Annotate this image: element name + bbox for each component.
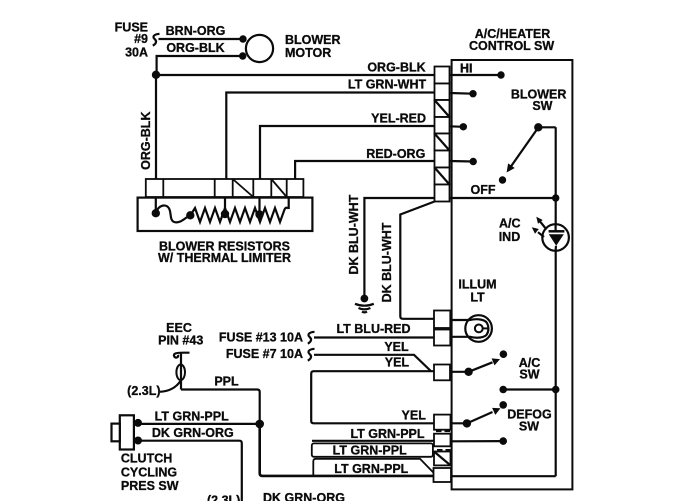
- wire BRN-ORG fuse9 to motor: [159, 38, 244, 40]
- svg-text:FUSE #7 10A: FUSE #7 10A: [226, 347, 303, 361]
- control switch box U1 outline: [452, 60, 573, 489]
- ground G1: [361, 295, 369, 303]
- common bus vertical wire: [555, 127, 557, 476]
- svg-text:SW: SW: [519, 367, 539, 381]
- EEC pin 43 connector symbol: [174, 353, 190, 358]
- wire RED-ORG: [295, 161, 434, 180]
- wire down to defog feed: [260, 424, 434, 476]
- blower switch S1 arm: [510, 128, 539, 169]
- wire LT GRN-WHT: [226, 93, 434, 180]
- svg-text:CYCLING: CYCLING: [121, 466, 177, 480]
- svg-text:PRES SW: PRES SW: [121, 479, 179, 493]
- resistor element zigzag: [190, 208, 288, 222]
- lower connector cells: [434, 415, 452, 482]
- svg-text:DK BLU-WHT: DK BLU-WHT: [347, 194, 361, 274]
- clutch cycling press switch S4: [120, 415, 134, 449]
- illum lamp L1: [465, 315, 492, 342]
- svg-text:YEL: YEL: [385, 355, 410, 369]
- option box 2 LT GRN-PPL: [313, 459, 433, 476]
- svg-text:LT GRN-WHT: LT GRN-WHT: [348, 77, 427, 91]
- connector dashes: [436, 431, 451, 450]
- junction node: [152, 71, 160, 79]
- A/C switch S2 arm: [469, 362, 493, 372]
- A/C switch S2 pivot: [450, 371, 468, 373]
- svg-text:#9: #9: [134, 32, 148, 46]
- wire YEL from fuse7: [314, 355, 431, 371]
- OFF contact: [499, 176, 506, 183]
- svg-text:FUSE #13 10A: FUSE #13 10A: [219, 331, 303, 345]
- svg-text:BRN-ORG: BRN-ORG: [166, 24, 226, 38]
- svg-text:LT GRN-PPL: LT GRN-PPL: [155, 410, 229, 424]
- blower motor M1 terminals: [239, 35, 246, 42]
- option box 1 LT GRN-PPL: [312, 443, 433, 456]
- wire YEL-RED: [260, 126, 435, 180]
- DEFOG switch output node: [499, 437, 507, 445]
- DEFOG switch S3 arm: [467, 412, 493, 423]
- wire defog feed to common bus: [452, 475, 556, 477]
- blower speed contact 2: [450, 92, 474, 95]
- wire OFF row to common bus: [450, 197, 556, 199]
- wire LT GRN-PPL to defog contact: [312, 440, 434, 442]
- blower speed contact 3: [450, 125, 464, 128]
- EEC inline connector: [176, 365, 185, 381]
- blower speed contact 4: [450, 160, 474, 163]
- svg-text:(2.3L): (2.3L): [207, 494, 240, 501]
- wire DK GRN-ORG: [138, 441, 242, 501]
- svg-text:(2.3L): (2.3L): [127, 384, 160, 398]
- svg-text:ORG-BLK: ORG-BLK: [166, 41, 224, 55]
- A/C switch output node: [499, 386, 507, 394]
- wire ORG-BLK vertical to resistors: [155, 75, 157, 180]
- svg-text:ORG-BLK: ORG-BLK: [139, 112, 153, 170]
- svg-text:RED-ORG: RED-ORG: [366, 147, 425, 161]
- svg-text:30A: 30A: [125, 46, 148, 60]
- svg-text:W/ THERMAL LIMITER: W/ THERMAL LIMITER: [158, 251, 291, 265]
- svg-text:PIN #43: PIN #43: [158, 333, 203, 347]
- A/C feed connector cell: [434, 365, 450, 381]
- svg-text:LT: LT: [470, 291, 485, 305]
- svg-text:ORG-BLK: ORG-BLK: [367, 61, 425, 75]
- LED A/C IND: [542, 224, 569, 251]
- svg-text:OFF: OFF: [471, 183, 496, 197]
- fuse F9 symbol: [153, 34, 160, 46]
- leader curve 2.3L: [160, 381, 181, 392]
- wire LT BLU-RED: [314, 336, 434, 338]
- svg-text:A/C: A/C: [499, 217, 521, 231]
- blower motor M1: [246, 35, 273, 62]
- connector strip upper cells: [435, 67, 450, 202]
- wire ORG-BLK fuse9 to motor: [157, 56, 243, 75]
- svg-text:ILLUM: ILLUM: [458, 278, 496, 292]
- illum connector cells: [434, 311, 450, 346]
- fuse F13 symbol: [308, 332, 315, 344]
- DEFOG switch S3 pivot: [451, 422, 467, 424]
- LED light arrows: [540, 221, 547, 230]
- svg-text:CONTROL SW: CONTROL SW: [469, 39, 554, 53]
- svg-text:SW: SW: [532, 99, 552, 113]
- svg-text:LT GRN-PPL: LT GRN-PPL: [334, 462, 408, 476]
- svg-text:LT GRN-PPL: LT GRN-PPL: [350, 427, 424, 441]
- svg-text:DK GRN-ORG: DK GRN-ORG: [263, 491, 345, 501]
- junction node PPL/LT GRN-PPL: [255, 420, 264, 429]
- svg-text:HI: HI: [460, 62, 473, 76]
- svg-text:MOTOR: MOTOR: [285, 46, 331, 60]
- wire PPL: [181, 390, 260, 424]
- svg-text:LT GRN-PPL: LT GRN-PPL: [333, 444, 407, 458]
- thermal limiter: [156, 205, 190, 222]
- resistor pack connector row: [146, 179, 304, 197]
- svg-text:YEL: YEL: [402, 408, 427, 422]
- lower connector diagonal: [434, 452, 451, 466]
- svg-text:DK BLU-WHT: DK BLU-WHT: [380, 222, 394, 302]
- svg-text:LT BLU-RED: LT BLU-RED: [336, 322, 410, 336]
- fuse F7 symbol: [308, 349, 315, 361]
- svg-text:YEL: YEL: [384, 340, 409, 354]
- wire ORG-BLK horizontal to connector: [156, 74, 435, 76]
- svg-text:PPL: PPL: [214, 375, 239, 389]
- wire DK BLU-WHT to illum lamp: [400, 202, 434, 319]
- svg-text:SW: SW: [519, 420, 539, 434]
- resistor taps: [155, 197, 157, 210]
- svg-text:CLUTCH: CLUTCH: [121, 452, 172, 466]
- illum lamp leads: [450, 319, 470, 321]
- wire DK BLU-WHT to ground: [364, 198, 434, 296]
- wire HI contact: [450, 74, 502, 76]
- blower switch S1 common: [534, 123, 542, 131]
- svg-text:IND: IND: [499, 230, 521, 244]
- wire LT GRN-PPL from clutch switch: [138, 423, 260, 425]
- wire YEL branch: [311, 371, 434, 423]
- svg-text:YEL-RED: YEL-RED: [371, 112, 426, 126]
- connector diagonal marks: [435, 100, 450, 117]
- blower resistors R1 box: [138, 198, 313, 231]
- svg-text:DK GRN-ORG: DK GRN-ORG: [152, 426, 234, 440]
